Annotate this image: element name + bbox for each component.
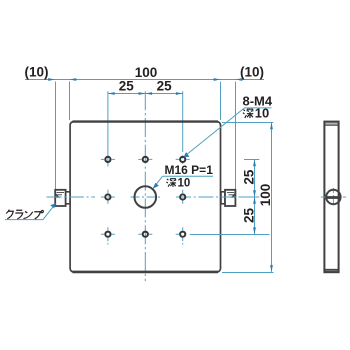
svg-text:25: 25 xyxy=(241,208,256,224)
node label M16 depth 深10 xyxy=(166,178,190,190)
wire top dimension line y=80 xyxy=(25,79,264,81)
leader clamp underline xyxy=(5,204,55,219)
node label クランプ xyxy=(5,210,43,219)
clamp right head xyxy=(225,190,235,206)
clamp left neck xyxy=(66,192,70,204)
plate front view outline xyxy=(70,122,220,272)
svg-text:10: 10 xyxy=(255,106,269,121)
node arrow right-10 left-pointing tip at 235.5 xyxy=(236,78,243,81)
center hole M16 xyxy=(135,186,157,208)
node arrow 25 left tip at 107.9 xyxy=(108,92,115,95)
node arrow 100 bottom tip xyxy=(270,265,273,272)
hole C3 cross ticks xyxy=(176,227,183,244)
wire horizontal centerline right segment xyxy=(176,196,247,198)
svg-text:25: 25 xyxy=(241,169,256,185)
wire extension line x=235.5 from dim to right clamp xyxy=(235,82,237,190)
wire centerline column x=182.7 upper xyxy=(182,91,184,152)
svg-text:25: 25 xyxy=(119,79,135,94)
side view screw slot xyxy=(327,196,341,199)
plate top edge thick xyxy=(73,120,219,122)
wire 100 dimension line x=271 xyxy=(271,123,273,272)
wire vertical centerline x=145.3 xyxy=(144,91,146,281)
hole B1 vertical ticks xyxy=(107,190,109,204)
side view body xyxy=(324,122,338,273)
node label 8-M4 depth 深10 xyxy=(243,106,269,121)
plate bottom edge thick xyxy=(73,271,219,274)
wire extension line x=70 from dim to plate corner xyxy=(69,82,71,121)
clamp left hatch marks xyxy=(57,192,65,197)
side view top inner line xyxy=(324,124,338,126)
hole A3 cross ticks xyxy=(176,158,190,160)
side view screw crosshair horizontal xyxy=(321,196,346,198)
node arrow r25 mid-down tip xyxy=(253,197,256,204)
svg-text:(10): (10) xyxy=(24,65,48,80)
side view bottom inner line xyxy=(324,268,338,270)
side view top band fill xyxy=(324,122,338,125)
node arrow 25 mid-left tip at 145.3 xyxy=(139,92,146,95)
hole B2 mid-right xyxy=(180,194,185,199)
side view screw crosshair vertical xyxy=(332,188,334,206)
wire extension line x=220.5 from dim to plate corner xyxy=(220,82,222,121)
clamp right neck xyxy=(221,192,225,204)
hole A2 top-center xyxy=(143,157,148,162)
wire extension line top y=122.3 xyxy=(222,122,273,124)
svg-text:10: 10 xyxy=(178,178,191,190)
wire extension line x=55 from dim to left clamp xyxy=(55,82,57,190)
leader M16 line xyxy=(155,176,163,186)
wire extension line bottom y=272.2 xyxy=(222,272,274,274)
leader M16 arrowhead xyxy=(153,183,159,189)
svg-text:M16 P=1: M16 P=1 xyxy=(165,163,214,177)
clamp right hatch marks xyxy=(227,192,234,197)
node arrow 100-right right-pointing tip at 220.5 xyxy=(214,78,221,81)
hole A2 cross ticks xyxy=(138,158,152,160)
svg-text:25: 25 xyxy=(157,79,173,94)
svg-text:100: 100 xyxy=(258,184,273,207)
hole C1 bottom-left xyxy=(105,232,110,237)
svg-text:100: 100 xyxy=(135,65,158,80)
leader clamp arrowhead xyxy=(50,203,56,208)
wire extension line y=234.2 right long xyxy=(190,234,270,236)
wire extension line y=159.4 right xyxy=(244,159,259,161)
node arrow r25 mid-up tip xyxy=(253,190,256,197)
svg-text:(10): (10) xyxy=(240,65,264,80)
wire centerline column x=107.9 upper xyxy=(107,91,109,166)
hole A1 top-left xyxy=(105,157,110,162)
hole B2 vertical ticks xyxy=(182,190,184,204)
hole A3 top-right xyxy=(180,157,185,162)
leader M16 underline xyxy=(163,175,214,177)
wire horizontal centerline y=196.8 left clamp segment xyxy=(47,196,96,198)
clamp left head xyxy=(55,190,65,206)
hole C1 cross ticks xyxy=(101,227,115,244)
wire 25-25 dimension line y=93.8 xyxy=(108,93,183,95)
hole A1 cross ticks xyxy=(101,158,115,160)
side view screw circle xyxy=(326,190,340,204)
wire horizontal centerline hole cross left xyxy=(101,196,115,198)
leader 8-M4 arrowhead xyxy=(184,152,190,157)
hole C3 bottom-right xyxy=(180,232,185,237)
leader 8-M4 line xyxy=(185,108,272,156)
node arrow 100 top tip xyxy=(270,123,273,130)
node arrow 25 right tip at 182.7 xyxy=(176,92,183,95)
node arrow r25 top tip xyxy=(253,159,256,166)
hole C2 cross ticks xyxy=(138,233,152,235)
node arrow r25 bottom tip xyxy=(253,227,256,234)
hole C2 bottom-center xyxy=(143,232,148,237)
side view bottom band fill xyxy=(324,269,338,272)
node arrow 100-left left-pointing tip at 70 xyxy=(70,78,77,81)
node arrow 25 mid-right tip at 145.3 xyxy=(145,92,152,95)
wire horizontal centerline center hole segment xyxy=(131,196,161,198)
wire extension line y=196.8 right xyxy=(239,196,260,198)
wire right 25-25 dimension line x=254.6 xyxy=(254,159,256,234)
hole B1 mid-left xyxy=(105,194,110,199)
node arrow left-10 right-pointing tip at 55 xyxy=(48,78,55,81)
